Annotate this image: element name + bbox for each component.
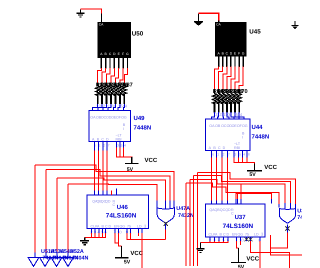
inverter labels: [41, 249, 88, 262]
resistor R64: [212, 89, 224, 113]
svg-text:U46: U46: [117, 204, 129, 211]
wires resistors to U49 OA-OG: [93, 104, 125, 111]
wire U37 right stub: [270, 235, 272, 248]
svg-text:7404N: 7404N: [73, 256, 89, 262]
display U45 (7-seg): [215, 22, 247, 57]
U49 bottom pin numbers: [94, 144, 126, 148]
wire GND1 to U50 CA (red): [81, 9, 102, 14]
svg-text:I: I: [242, 136, 243, 140]
ground GND3: [194, 14, 203, 26]
svg-text:G: G: [126, 52, 129, 56]
svg-text:F: F: [122, 52, 124, 56]
svg-text:5V: 5V: [249, 172, 256, 178]
wire U49 LT RBI BI to VCC: [116, 148, 131, 158]
svg-text:OG: OG: [121, 115, 127, 119]
svg-text:RBI: RBI: [234, 146, 240, 150]
svg-text:G: G: [242, 51, 245, 55]
wire U47A output: [165, 224, 167, 230]
wire center bus 1 / branch to right nest: [186, 183, 279, 266]
svg-text:2: 2: [223, 152, 225, 156]
svg-text:U37: U37: [235, 214, 247, 221]
svg-text:75: 75: [245, 232, 249, 236]
resistor R87: [122, 83, 133, 104]
svg-text:7: 7: [108, 144, 110, 148]
ground GND5 (floating, top right): [292, 21, 299, 29]
wires U50 segments to resistor network: [98, 68, 128, 83]
power VCC symbol below U37: [231, 248, 246, 263]
U46 RCO stub: [116, 189, 118, 196]
wires U49 A-D to U46 QA-QD: [94, 142, 107, 196]
U44 input pin numbers: [213, 112, 243, 117]
svg-text:QG: QG: [120, 224, 126, 228]
IC U49 7448N body: [89, 111, 131, 142]
wire U37 CLK link to right: [236, 194, 272, 200]
inverter input stubs: [35, 253, 68, 258]
svg-text:6: 6: [212, 152, 214, 156]
junction X marks at U37 pins: [245, 237, 253, 241]
svg-text:D: D: [223, 146, 226, 150]
svg-text:10: 10: [239, 238, 244, 243]
wire GND3 to U45 CA (red): [199, 13, 219, 21]
resistor R84: [109, 83, 121, 104]
wire net QC to gate input: [57, 178, 166, 201]
svg-text:4: 4: [243, 152, 245, 156]
svg-text:7448N: 7448N: [134, 125, 152, 132]
U46 CLK stub: [111, 191, 113, 195]
svg-text:5: 5: [239, 152, 241, 156]
resistor R83: [104, 83, 115, 104]
resistor R69: [233, 89, 244, 113]
resistor R70: [237, 89, 248, 113]
svg-text:U49: U49: [134, 115, 146, 122]
wire bus vertical 1: [34, 165, 36, 253]
ground GND2: [80, 238, 89, 245]
svg-text:CA: CA: [99, 23, 104, 27]
svg-text:U45: U45: [249, 29, 261, 36]
power VCC symbol near U49: [125, 157, 138, 163]
svg-text:3: 3: [235, 152, 237, 156]
wire right gate output: [286, 224, 288, 232]
wire bus vertical 3: [56, 178, 58, 253]
wire center bus 3 / branch to right nest: [194, 176, 291, 266]
svg-text:LD: LD: [254, 232, 259, 236]
resistor R86: [118, 83, 129, 104]
resistor R67: [225, 89, 236, 113]
junction X at right gate output: [285, 226, 289, 230]
wire U37 data inputs to ground: [201, 241, 229, 243]
svg-text:8: 8: [248, 152, 250, 156]
svg-text:OG: OG: [242, 124, 248, 128]
wire net QA to gate input: [35, 165, 174, 201]
svg-text:U47A: U47A: [176, 206, 190, 212]
or-gate U38A: [279, 203, 295, 223]
svg-text:VCC: VCC: [145, 157, 158, 164]
svg-text:I: I: [123, 127, 124, 131]
svg-text:75: 75: [127, 224, 131, 228]
resistor R82: [100, 83, 111, 104]
wire U37 ENP/ENT to VCC: [237, 241, 241, 248]
resistor R81: [95, 83, 106, 104]
svg-text:D: D: [109, 224, 112, 228]
resistor R85: [113, 83, 124, 104]
wire U37 ENP from bus: [237, 192, 239, 199]
resistor R66: [221, 89, 232, 113]
junction X at U47A output: [164, 222, 168, 226]
svg-text:1: 1: [217, 152, 219, 156]
wire stub U46 pin9: [138, 233, 140, 236]
wires U49 LT RBI BI stubs: [116, 142, 123, 148]
U37 pin numbers: [209, 238, 262, 243]
U44 bottom pin numbers: [212, 152, 250, 156]
display U50 pins A-G: [101, 58, 127, 69]
svg-text:U50: U50: [132, 31, 144, 38]
wire U44 LT RBI BI to VCC: [234, 157, 255, 163]
ground GND1: [77, 10, 85, 17]
wire center bus 2 / branch to right nest: [190, 180, 285, 267]
power VCC symbol below U46: [115, 246, 128, 258]
svg-text:RBI: RBI: [116, 138, 122, 142]
svg-text:10: 10: [117, 229, 122, 234]
U37 bottom pin stubs: [210, 237, 260, 241]
svg-text:3: 3: [117, 144, 119, 148]
resistor R68: [229, 89, 240, 113]
svg-text:R70: R70: [237, 89, 247, 95]
wire U45 CA pin (black): [218, 21, 220, 22]
wire U37 pin1 to bottom right bus: [251, 241, 290, 268]
wire U46 data inputs to ground: [85, 233, 106, 238]
wire bus vertical 2: [45, 170, 47, 253]
svg-text:7432N: 7432N: [297, 215, 302, 221]
svg-text:C: C: [231, 212, 234, 216]
svg-text:VCC: VCC: [246, 255, 259, 262]
svg-text:D: D: [227, 232, 230, 236]
U46 bottom pin stubs: [92, 229, 143, 233]
svg-text:C: C: [101, 137, 104, 141]
or-gate U47A: [157, 201, 174, 224]
counter U46 74LS160N body: [87, 195, 149, 229]
svg-text:7: 7: [228, 152, 230, 156]
U46 pin numbers: [90, 229, 132, 234]
svg-text:F: F: [238, 51, 240, 55]
svg-text:D: D: [106, 137, 109, 141]
resistor R65: [217, 89, 228, 113]
svg-text:5: 5: [121, 144, 123, 148]
inverter U53A: [51, 258, 62, 267]
svg-text:4: 4: [124, 144, 126, 148]
wire net QD to gate input: [68, 184, 157, 201]
svg-text:74LS160N: 74LS160N: [106, 213, 137, 220]
svg-text:QD: QD: [105, 199, 111, 203]
svg-text:VCC: VCC: [264, 164, 277, 171]
svg-text:QG: QG: [238, 232, 244, 236]
power VCC symbol near U44: [247, 163, 262, 170]
svg-text:2: 2: [103, 144, 105, 148]
display U50 (7-seg): [98, 22, 132, 58]
wires U44 A-D to U37 QA-QD: [212, 150, 228, 204]
wire U50 CA pin (black): [101, 14, 103, 22]
svg-text:U52A: U52A: [70, 249, 84, 255]
svg-text:7448N: 7448N: [252, 133, 270, 140]
inverter U51A: [28, 258, 39, 267]
wires resistors to U44 OA-OG: [212, 112, 245, 119]
svg-text:C: C: [218, 146, 221, 150]
svg-text:5V: 5V: [238, 264, 245, 268]
wire U37 ENT from bus: [240, 184, 242, 199]
svg-text:CA: CA: [216, 23, 221, 27]
wires U44 LT RBI BI stubs: [234, 150, 247, 157]
wires U45 segments to resistor network: [215, 66, 244, 89]
wire U46 load from U47A output: [127, 233, 166, 268]
svg-text:R87: R87: [122, 83, 132, 89]
wire center bus 4 / branch to right nest: [198, 172, 296, 266]
counter U37 74LS160N body: [206, 204, 266, 237]
svg-text:U38A: U38A: [297, 208, 302, 214]
U49 input pin numbers: [96, 104, 128, 109]
svg-text:U44: U44: [252, 124, 264, 131]
svg-text:C: C: [113, 203, 116, 207]
svg-text:14: 14: [238, 112, 243, 117]
svg-text:74LS160N: 74LS160N: [223, 223, 254, 230]
inverter U54A: [63, 258, 74, 267]
wire U37 pin8 down: [259, 241, 261, 268]
ground GND4: [196, 243, 204, 253]
svg-text:LD: LD: [137, 224, 142, 228]
display U45 pins A-G: [219, 57, 244, 67]
wire bus vertical 4: [67, 184, 69, 253]
wire net QB to gate input: [46, 170, 170, 201]
IC U44 7448N body: [206, 119, 251, 150]
svg-text:OB: OB: [215, 124, 221, 128]
wire U46 ENP/ENT to VCC: [115, 233, 122, 246]
svg-text:5V: 5V: [124, 259, 131, 265]
inverter U52A: [40, 258, 51, 267]
